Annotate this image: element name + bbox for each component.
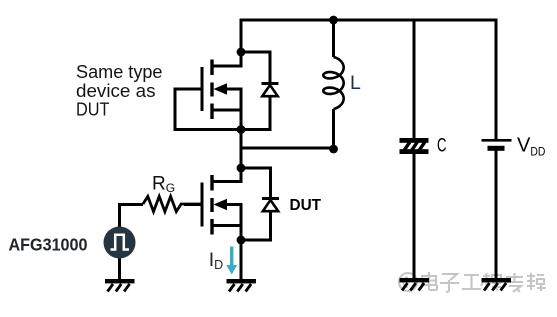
diode D1 (Q1 body diode) bbox=[262, 84, 279, 97]
svg-text:DUT: DUT bbox=[76, 100, 110, 120]
wire gate to resistor bbox=[184, 203, 202, 206]
char dian bbox=[422, 272, 437, 290]
pulse source AFG31000 bbox=[104, 227, 136, 259]
wire vdd branch top bbox=[495, 20, 498, 140]
svg-text:C: C bbox=[437, 135, 447, 157]
wire inductor bottom bbox=[332, 109, 335, 149]
wire Q1 source lead bbox=[212, 109, 241, 112]
wire Q2 diode bottom bbox=[241, 212, 271, 241]
node dot Q1 source bbox=[237, 125, 246, 134]
wire Q2 drain stub bbox=[212, 167, 241, 182]
wire inductor top bbox=[332, 20, 335, 57]
char ji bbox=[527, 273, 546, 291]
svg-text:AFG31000: AFG31000 bbox=[9, 235, 88, 255]
wire top rail bbox=[240, 19, 498, 22]
svg-text:device as: device as bbox=[76, 81, 156, 101]
wire resistor left bbox=[120, 205, 144, 228]
ground AFG bbox=[105, 279, 135, 292]
wire Q1 body lead bbox=[222, 89, 241, 130]
char zhuan bbox=[506, 273, 523, 292]
char zi bbox=[440, 274, 459, 292]
svg-text:L: L bbox=[350, 72, 361, 94]
watermark bbox=[399, 272, 546, 292]
wire Q1 drain stub bbox=[212, 51, 241, 66]
wire Q2 diode branch bbox=[241, 168, 271, 197]
wire inductor tee bbox=[241, 147, 333, 150]
inductor L coil bbox=[323, 57, 343, 109]
node dot Q2 source bbox=[237, 236, 246, 245]
wire vdd branch bottom bbox=[495, 150, 498, 279]
current arrow ID bbox=[226, 247, 237, 275]
node dot inductor top bbox=[329, 16, 338, 25]
wire mid vertical bbox=[240, 129, 243, 168]
svg-text:Same type: Same type bbox=[76, 62, 163, 82]
wire cap branch top bbox=[413, 20, 416, 139]
transistor Q2 DUT bbox=[202, 175, 227, 235]
wire AFG to ground bbox=[118, 258, 121, 279]
node dot inductor bottom bbox=[329, 145, 338, 154]
node dot Q1 drain bbox=[237, 48, 246, 57]
diode D2 (DUT body diode) bbox=[262, 199, 279, 212]
capacitor C bbox=[400, 138, 429, 154]
ground VDD bbox=[482, 278, 512, 291]
ground DUT source bbox=[227, 279, 257, 292]
wire Q1 diode branch bbox=[241, 52, 270, 82]
wire Q2 source lead bbox=[212, 224, 241, 227]
char gong bbox=[462, 275, 481, 289]
char cheng bbox=[481, 273, 501, 290]
wire Q1 gate tie bbox=[175, 89, 241, 130]
wire drain drop bbox=[240, 20, 243, 52]
node dot Q2 drain bbox=[237, 164, 246, 173]
wire Q2 source to ground bbox=[240, 240, 243, 279]
resistor RG zigzag bbox=[143, 196, 202, 211]
svg-text:DUT: DUT bbox=[290, 197, 322, 214]
wire cap branch bottom bbox=[413, 154, 416, 280]
ground C bbox=[400, 278, 430, 291]
transistor Q1 (same type device as DUT) bbox=[202, 60, 227, 120]
battery VDD bbox=[482, 140, 512, 151]
wire Q2 body lead bbox=[222, 205, 241, 241]
wire Q1 diode bottom bbox=[241, 96, 270, 130]
